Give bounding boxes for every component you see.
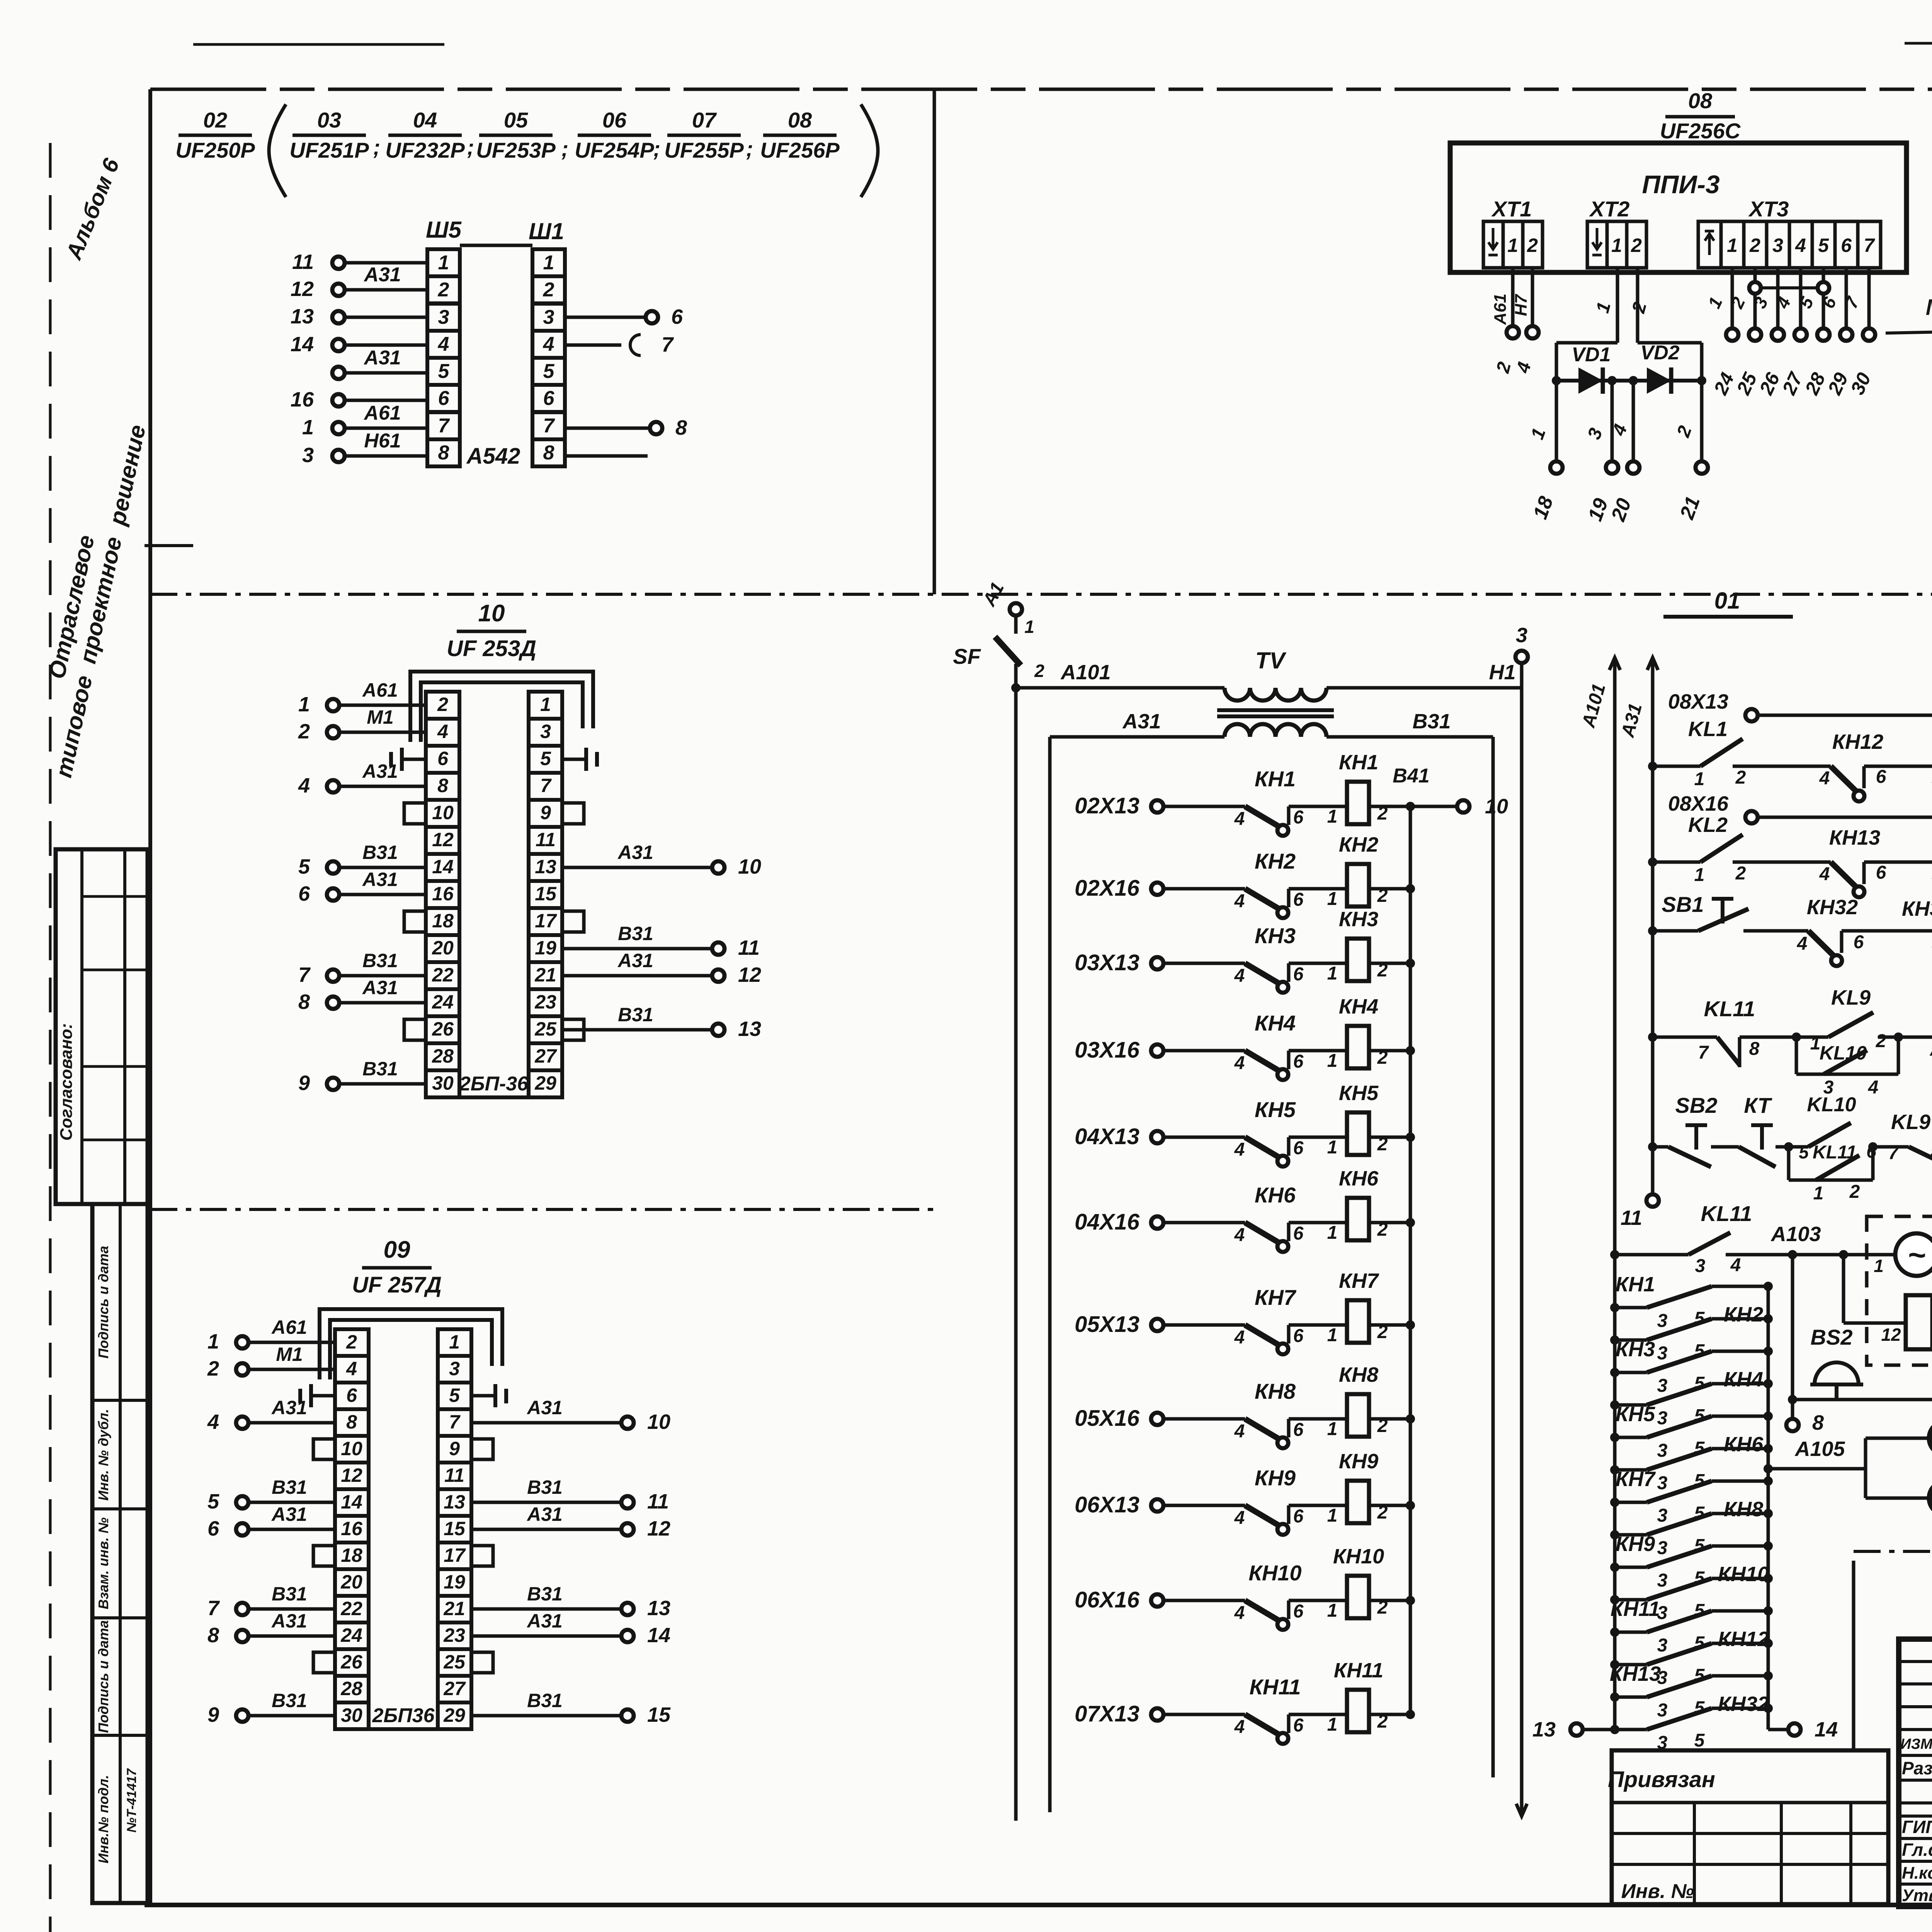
bus B31 vertical [1492, 737, 1495, 1777]
svg-text:В31: В31 [272, 1583, 307, 1605]
margin caption Отраслевое [44, 533, 99, 681]
svg-text:22: 22 [432, 964, 454, 986]
svg-text:КТ: КТ [1744, 1093, 1772, 1117]
svg-text:КН3: КН3 [1339, 908, 1378, 931]
relay coil KH1 [1327, 751, 1415, 827]
svg-text:1: 1 [1327, 806, 1338, 827]
frame tick [145, 544, 193, 547]
XT3 wires to terminals 24-30 [1704, 268, 1875, 398]
svg-text:;: ; [561, 136, 569, 161]
diode VD2 [1640, 342, 1679, 394]
svg-text:04Х13: 04Х13 [1075, 1124, 1139, 1149]
separator marks [373, 135, 753, 161]
svg-text:SB2: SB2 [1675, 1093, 1718, 1117]
terminal strip XT2 [1587, 197, 1646, 268]
svg-text:6: 6 [1293, 1506, 1304, 1527]
svg-text:КН9: КН9 [1339, 1450, 1378, 1473]
svg-text:А31: А31 [363, 264, 401, 286]
svg-text:2БП36: 2БП36 [372, 1704, 435, 1727]
XT2 wires 1 2 [1556, 268, 1702, 381]
svg-text:14: 14 [341, 1491, 362, 1513]
diode VD1 [1571, 344, 1611, 394]
connector right pin wires 09 [471, 1397, 671, 1726]
svg-text:2: 2 [1876, 1031, 1886, 1051]
svg-text:08Х16: 08Х16 [1668, 792, 1729, 815]
svg-text:А31: А31 [362, 977, 398, 998]
svg-text:14: 14 [647, 1624, 670, 1647]
svg-text:А31: А31 [526, 1610, 563, 1632]
svg-text:КН6: КН6 [1724, 1433, 1764, 1456]
svg-text:А61: А61 [362, 679, 398, 701]
svg-text:6: 6 [671, 305, 683, 328]
svg-text:В31: В31 [527, 1583, 563, 1605]
svg-text:3: 3 [1516, 624, 1527, 647]
svg-text:25: 25 [443, 1651, 466, 1673]
svg-text:03Х13: 03Х13 [1075, 950, 1139, 975]
svg-text:Согласовано:: Согласовано: [57, 1023, 76, 1141]
svg-text:1: 1 [1611, 235, 1622, 256]
svg-text:КН5: КН5 [1255, 1097, 1296, 1122]
svg-text:11: 11 [444, 1464, 464, 1486]
svg-text:КН7: КН7 [1616, 1468, 1656, 1491]
svg-text:Инв.№ подл.: Инв.№ подл. [95, 1775, 111, 1863]
svg-text:03: 03 [317, 108, 341, 132]
svg-text:6: 6 [1293, 1138, 1304, 1158]
svg-text:Монтажный провод: Монтажный провод [1926, 295, 1932, 320]
svg-text:5: 5 [540, 748, 551, 769]
svg-text:ГИП: ГИП [1902, 1817, 1932, 1837]
svg-text:2: 2 [1749, 235, 1760, 256]
connector right pin wires 10 [562, 842, 761, 1041]
contact KL11 NC [1648, 997, 1801, 1067]
relay coil KH32 [1902, 897, 1932, 958]
svg-text:1: 1 [1327, 1419, 1338, 1439]
svg-text:6: 6 [1854, 932, 1864, 952]
svg-text:;: ; [373, 135, 381, 159]
relay coil KH11 [1327, 1659, 1415, 1735]
connector Ш1 right pin wires [565, 305, 687, 456]
svg-text:1: 1 [1327, 1223, 1338, 1243]
device designator fraction 02/UF250Р [175, 108, 255, 162]
margin caption Альбом 6 [61, 155, 124, 264]
svg-text:7: 7 [1698, 1043, 1709, 1063]
svg-text:11: 11 [536, 829, 556, 850]
contact KL10 NO row7 [1789, 1094, 1856, 1147]
svg-text:27: 27 [443, 1678, 466, 1699]
svg-text:В31: В31 [618, 923, 653, 944]
svg-text:8: 8 [1749, 1039, 1760, 1059]
svg-text:9: 9 [449, 1438, 460, 1459]
sheet left trim line [49, 143, 52, 1932]
block title 09 [352, 1236, 442, 1298]
contact KL11 bypass [1789, 1141, 1878, 1204]
svg-text:UF253Р: UF253Р [476, 138, 556, 162]
svg-text:10: 10 [1485, 795, 1508, 818]
svg-text:UF250Р: UF250Р [175, 138, 255, 162]
svg-text:В31: В31 [272, 1690, 307, 1711]
contact KH12 [1819, 730, 1932, 801]
device designator fraction 07/UF255Р [664, 108, 744, 162]
terminal 07Х13 [1075, 1701, 1245, 1726]
svg-text:4: 4 [1797, 934, 1808, 954]
svg-text:6: 6 [438, 387, 450, 410]
svg-text:КН2: КН2 [1724, 1303, 1763, 1326]
connector bottom edge 09 [335, 1727, 471, 1731]
chain right bus [1767, 1286, 1770, 1708]
bus A31-01 [1617, 658, 1658, 1194]
contact KL9 NO [1796, 986, 1903, 1054]
svg-text:15: 15 [647, 1703, 671, 1726]
svg-text:3: 3 [1657, 1635, 1668, 1656]
svg-text:6: 6 [1293, 1715, 1304, 1736]
svg-text:13: 13 [444, 1491, 465, 1513]
transformer TV primary [1225, 648, 1327, 701]
svg-text:КН12: КН12 [1832, 730, 1883, 753]
svg-text:Ш5: Ш5 [426, 217, 462, 243]
svg-text:4: 4 [1234, 966, 1245, 986]
svg-text:KL10: KL10 [1820, 1042, 1867, 1064]
section separator above title [1854, 1550, 1932, 1553]
svg-text:КН8: КН8 [1339, 1363, 1378, 1386]
contact KL9 row7 [1873, 1111, 1932, 1165]
terminal 02Х13 [1075, 793, 1245, 818]
contact KH1 [1234, 767, 1347, 836]
connector housing cap 09 [320, 1309, 502, 1379]
diode output wires to terminals 18 19 20 21 [1527, 381, 1708, 524]
svg-text:8: 8 [543, 442, 554, 464]
svg-text:6: 6 [437, 748, 449, 769]
svg-text:8: 8 [1930, 1143, 1932, 1163]
svg-text:4: 4 [1234, 1717, 1245, 1737]
section separator vertical top-left [933, 89, 936, 594]
contact chain КН6 [1610, 1433, 1773, 1493]
svg-text:VD1: VD1 [1571, 344, 1611, 366]
svg-text:КН32: КН32 [1807, 896, 1858, 919]
terminal 11 [1621, 1194, 1659, 1230]
svg-text:ХТ2: ХТ2 [1589, 197, 1630, 221]
wire BS2 row [1793, 1395, 1932, 1404]
svg-text:А31: А31 [363, 347, 401, 369]
cable shield link [1749, 282, 1829, 294]
svg-text:07: 07 [692, 108, 717, 132]
svg-text:В31: В31 [362, 842, 398, 863]
svg-text:6: 6 [1876, 767, 1886, 787]
svg-text:3: 3 [1695, 1256, 1706, 1276]
svg-text:5: 5 [1818, 235, 1829, 256]
svg-text:2: 2 [438, 279, 449, 301]
svg-text:5: 5 [1694, 1730, 1705, 1751]
motor M [1874, 1217, 1932, 1276]
svg-text:KL9: KL9 [1891, 1111, 1930, 1134]
contact chain КН13 [1610, 1662, 1773, 1721]
svg-text:20: 20 [340, 1571, 362, 1593]
svg-text:26: 26 [432, 1018, 454, 1040]
terminal 06Х16 [1075, 1587, 1245, 1612]
svg-text:ХТ3: ХТ3 [1748, 197, 1789, 221]
svg-text:ППИ-3: ППИ-3 [1642, 170, 1719, 199]
contact KH6 [1234, 1183, 1347, 1252]
svg-text:8: 8 [1812, 1411, 1824, 1434]
svg-text:А31: А31 [617, 842, 653, 863]
svg-text:7: 7 [1864, 235, 1875, 256]
contact KH9 [1234, 1466, 1347, 1535]
svg-text:19: 19 [444, 1571, 465, 1593]
svg-text:ИЗМ: ИЗМ [1900, 1736, 1932, 1752]
svg-text:3: 3 [1657, 1538, 1668, 1558]
svg-text:В41: В41 [1393, 765, 1429, 787]
svg-text:5: 5 [207, 1490, 219, 1513]
terminal 14 [1768, 1708, 1838, 1741]
svg-text:14: 14 [1815, 1718, 1838, 1741]
svg-text:1: 1 [1327, 889, 1338, 909]
svg-text:А31: А31 [271, 1503, 307, 1525]
svg-text:17: 17 [444, 1544, 466, 1566]
bus A101-01 [1578, 658, 1620, 1730]
svg-text:6: 6 [1293, 1420, 1304, 1440]
svg-text:КН9: КН9 [1616, 1532, 1655, 1556]
svg-text:А61: А61 [1491, 294, 1510, 325]
svg-text:КН5: КН5 [1339, 1082, 1379, 1105]
svg-text:16: 16 [432, 883, 454, 905]
svg-text:Гл.спец: Гл.спец [1902, 1840, 1932, 1860]
svg-text:Н1: Н1 [1489, 661, 1515, 684]
svg-text:17: 17 [535, 910, 557, 932]
svg-text:6: 6 [298, 882, 310, 905]
wire B41 terminal 10 [1393, 765, 1508, 818]
svg-text:1: 1 [1327, 1714, 1338, 1735]
svg-text:7: 7 [662, 333, 674, 356]
relay coil KH4 [1327, 995, 1415, 1071]
section separator horizontal [150, 593, 1932, 596]
relay coil KH10 [1327, 1545, 1415, 1621]
svg-text:6: 6 [1293, 1601, 1304, 1622]
bus A101 vertical [1011, 664, 1020, 1821]
contact KL2 [1648, 813, 1831, 885]
svg-text:3: 3 [1772, 235, 1783, 256]
device designator fraction 04/UF232Р [385, 108, 465, 162]
svg-text:Н.контр.: Н.контр. [1902, 1864, 1932, 1883]
svg-text:08: 08 [1688, 88, 1713, 113]
drawing frame left border [148, 89, 152, 1905]
note Монтажный провод экранированный [1886, 295, 1932, 355]
section boundary line to title table [1852, 1561, 1855, 1750]
svg-text:8: 8 [437, 775, 448, 796]
svg-text:4: 4 [1730, 1255, 1741, 1276]
svg-text:В31: В31 [272, 1476, 307, 1498]
terminal 05Х13 [1075, 1312, 1245, 1337]
svg-text:4: 4 [1234, 1508, 1245, 1528]
svg-text:6: 6 [1293, 1051, 1304, 1072]
svg-text:28: 28 [432, 1045, 454, 1067]
contact chain КН11 [1610, 1597, 1773, 1656]
svg-text:А: А [1930, 1039, 1932, 1060]
svg-text:А105: А105 [1794, 1437, 1845, 1461]
connector type label 2БП-36 [459, 1073, 529, 1095]
device designator fraction 06/UF254Р [575, 108, 654, 162]
svg-text:2: 2 [346, 1331, 357, 1353]
svg-text:2БП-36: 2БП-36 [459, 1073, 529, 1095]
lamp branch box [1866, 1438, 1932, 1498]
terminal 02Х16 [1075, 876, 1245, 901]
svg-text:2: 2 [1849, 1182, 1860, 1202]
pushbutton SB2 [1648, 1093, 1739, 1167]
svg-text:07Х13: 07Х13 [1075, 1701, 1139, 1726]
svg-text:24: 24 [432, 991, 454, 1013]
contact chain КН8 [1610, 1498, 1773, 1558]
contact KH11 [1234, 1675, 1347, 1744]
svg-text:1: 1 [1813, 1183, 1824, 1204]
svg-text:Разраб.: Разраб. [1902, 1758, 1932, 1778]
svg-text:;: ; [746, 136, 753, 161]
svg-text:6: 6 [1293, 889, 1304, 910]
relay coil KH5 [1327, 1082, 1415, 1158]
svg-text:06Х13: 06Х13 [1075, 1492, 1139, 1517]
wire A31 secondary [1050, 710, 1225, 737]
svg-text:2: 2 [1034, 661, 1044, 681]
svg-text:15: 15 [444, 1518, 466, 1539]
contact KH5 [1234, 1097, 1347, 1167]
title block frame [1899, 1639, 1932, 1906]
svg-text:7: 7 [298, 963, 311, 986]
svg-text:25: 25 [534, 1018, 557, 1040]
svg-text:4: 4 [1234, 809, 1245, 829]
svg-text:ХТ1: ХТ1 [1491, 197, 1532, 221]
svg-text:КН10: КН10 [1248, 1561, 1301, 1585]
relay coil KH13 [1932, 805, 1932, 889]
svg-text:КН4: КН4 [1339, 995, 1378, 1018]
svg-text:А61: А61 [363, 402, 401, 424]
svg-text:06Х16: 06Х16 [1075, 1587, 1139, 1612]
svg-text:2: 2 [1631, 235, 1642, 256]
svg-text:04Х16: 04Х16 [1075, 1209, 1139, 1235]
svg-text:ТV: ТV [1255, 648, 1287, 673]
connector right pin column 10 [529, 692, 562, 1097]
svg-text:11: 11 [292, 250, 314, 274]
svg-text:UF232Р: UF232Р [385, 138, 465, 162]
transformer TV secondary [1225, 724, 1327, 737]
svg-text:8: 8 [675, 416, 687, 439]
svg-text:11: 11 [738, 936, 760, 959]
svg-text:5: 5 [438, 360, 450, 383]
svg-text:КН1: КН1 [1255, 767, 1296, 791]
svg-text:1: 1 [1327, 963, 1338, 984]
svg-text:1: 1 [1507, 235, 1518, 256]
svg-text:1: 1 [1024, 617, 1034, 637]
wire A105 [1764, 1437, 1866, 1473]
svg-text:А31: А31 [1122, 710, 1161, 733]
svg-text:26: 26 [340, 1651, 363, 1673]
svg-text:10: 10 [341, 1438, 362, 1459]
svg-text:3: 3 [1657, 1700, 1668, 1721]
svg-text:KL1: KL1 [1688, 718, 1728, 741]
svg-text:2: 2 [1735, 767, 1746, 788]
connector housing cap 10 [410, 672, 593, 742]
ground symbol right 10 [562, 748, 597, 771]
contact chain КН9 [1610, 1532, 1773, 1591]
block title 10 [447, 600, 536, 661]
svg-text:В31: В31 [618, 1004, 653, 1026]
table Привязан [1608, 1750, 1888, 1904]
svg-text:8: 8 [438, 442, 449, 464]
margin caption типовое проектное решение [50, 422, 150, 780]
svg-text:30: 30 [432, 1072, 454, 1094]
svg-text:Подпись и дата: Подпись и дата [95, 1620, 111, 1733]
contact KL10 bypass [1796, 1037, 1898, 1098]
svg-text:03Х16: 03Х16 [1075, 1037, 1139, 1063]
contact KH8 [1234, 1379, 1347, 1448]
svg-text:КН6: КН6 [1255, 1183, 1296, 1207]
svg-text:5: 5 [543, 360, 555, 383]
terminal 08X13 [1668, 690, 1932, 721]
relay coil KH6 [1327, 1167, 1415, 1243]
svg-text:4: 4 [1819, 864, 1830, 884]
terminal 03Х13 [1075, 950, 1245, 975]
svg-text:А101: А101 [1060, 661, 1111, 684]
svg-text:8: 8 [298, 990, 310, 1014]
svg-text:1: 1 [543, 252, 554, 274]
contact chain КН12 [1610, 1628, 1773, 1688]
connector bottom edge 10 [426, 1095, 562, 1099]
svg-text:КН7: КН7 [1339, 1269, 1379, 1293]
svg-text:3: 3 [449, 1358, 460, 1379]
contact KL11 row8 [1610, 1201, 1895, 1276]
title block revision grid [1899, 1639, 1932, 1906]
svg-text:3: 3 [540, 721, 551, 742]
svg-text:А103: А103 [1770, 1223, 1821, 1246]
svg-text:12: 12 [647, 1517, 670, 1540]
svg-text:4: 4 [346, 1358, 357, 1379]
svg-text:4: 4 [543, 333, 554, 355]
wire A101 to TV [1016, 661, 1225, 688]
svg-text:05Х13: 05Х13 [1075, 1312, 1139, 1337]
device designator 08/UF256C [1660, 88, 1741, 143]
svg-text:4: 4 [207, 1410, 219, 1434]
module ППИ-3 box [1450, 143, 1906, 272]
contact chain КН10 [1610, 1563, 1773, 1623]
contact KH7 [1234, 1285, 1347, 1354]
svg-text:4: 4 [1234, 1603, 1245, 1623]
svg-text:В31: В31 [362, 950, 398, 971]
terminal strip XT3 [1698, 197, 1881, 268]
svg-text:15: 15 [535, 883, 557, 905]
ground symbol left 09 [300, 1384, 335, 1407]
svg-text:А31: А31 [362, 869, 398, 890]
svg-text:1: 1 [1694, 769, 1705, 789]
svg-text:~: ~ [1908, 1238, 1926, 1272]
svg-text:04: 04 [413, 108, 437, 132]
svg-text:3: 3 [543, 306, 554, 328]
svg-text:4: 4 [1868, 1077, 1879, 1098]
terminal 13 [1532, 1718, 1647, 1741]
svg-text:2: 2 [298, 720, 310, 743]
svg-text:16: 16 [291, 388, 314, 411]
svg-text:4: 4 [298, 774, 310, 797]
svg-text:23: 23 [443, 1624, 465, 1646]
svg-text:4: 4 [1234, 1053, 1245, 1073]
svg-text:6: 6 [1841, 235, 1852, 256]
contact chain КН32 [1610, 1692, 1773, 1753]
relay coil KL10 [1898, 980, 1932, 1068]
svg-text:27: 27 [534, 1045, 557, 1067]
svg-text:А31: А31 [271, 1397, 307, 1418]
svg-text:2: 2 [207, 1357, 219, 1380]
svg-text:А31: А31 [362, 760, 398, 782]
svg-text:29: 29 [443, 1704, 465, 1726]
svg-text:1: 1 [1327, 1600, 1338, 1621]
terminal 04Х16 [1075, 1209, 1245, 1235]
relay coil KH8 [1327, 1363, 1415, 1439]
svg-text:UF251Р: UF251Р [289, 138, 369, 162]
